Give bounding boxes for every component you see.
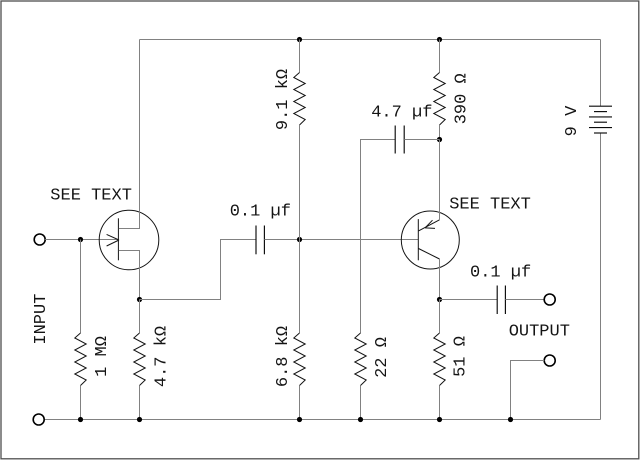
junction gate node <box>78 237 83 242</box>
wire source node to coupling cap <box>140 240 256 300</box>
resistor 1 MΩ <box>75 333 86 386</box>
wire 6.8k top lead <box>299 240 301 334</box>
svg-text:INPUT: INPUT <box>32 294 51 345</box>
svg-text:390 Ω: 390 Ω <box>453 73 472 124</box>
svg-text:6.8 kΩ: 6.8 kΩ <box>274 326 293 387</box>
wire bypass cap right <box>404 139 439 141</box>
svg-text:4.7 kΩ: 4.7 kΩ <box>153 326 172 387</box>
resistor 9.1 kΩ <box>294 73 305 126</box>
svg-text:0.1 µf: 0.1 µf <box>230 203 291 222</box>
wire 9.1k bottom lead <box>299 125 301 240</box>
svg-text:1 MΩ: 1 MΩ <box>93 336 112 377</box>
wire bottom ground rail <box>45 419 601 421</box>
resistor 22 Ω <box>355 333 366 386</box>
junction ground 51 <box>437 417 442 422</box>
junction collector node <box>437 297 442 302</box>
junction ground 6.8k <box>297 417 302 422</box>
terminal output top <box>544 294 555 305</box>
wire 4.7k bottom lead <box>139 386 141 420</box>
resistor 51 Ω <box>434 333 445 386</box>
junction top rail 390 <box>437 37 442 42</box>
capacitor 4.7 µf (bypass) <box>395 126 404 154</box>
wire cap to base <box>264 239 418 241</box>
svg-text:9.1 kΩ: 9.1 kΩ <box>274 69 293 130</box>
svg-text:SEE TEXT: SEE TEXT <box>50 187 132 206</box>
wire 1M top lead <box>80 240 82 334</box>
wire output cap to terminal <box>505 299 544 301</box>
wire 9.1k top lead <box>299 40 301 73</box>
svg-text:9 V: 9 V <box>563 105 582 136</box>
wire 51 top lead <box>439 300 441 334</box>
wire battery bottom lead <box>600 133 602 420</box>
terminal output bottom <box>544 355 555 366</box>
wire 390 bottom lead <box>439 125 441 140</box>
junction ground 1M <box>78 417 83 422</box>
svg-text:51 Ω: 51 Ω <box>452 336 471 377</box>
resistor 6.8 kΩ <box>294 333 305 386</box>
svg-text:4.7 µf: 4.7 µf <box>371 104 432 123</box>
transistor Q2 PNP <box>401 211 459 269</box>
capacitor 0.1 µf (input coupling) <box>256 226 264 255</box>
wire input to gate node <box>45 239 118 241</box>
wire 51 bottom lead <box>439 386 441 420</box>
wire collector to output cap <box>440 299 498 301</box>
terminal input bottom <box>33 414 44 425</box>
JFET Q1 <box>99 210 159 270</box>
wire 22 bottom lead <box>360 386 362 420</box>
wire battery top lead <box>600 40 602 107</box>
junction ground 22 <box>358 417 363 422</box>
svg-text:0.1 µf: 0.1 µf <box>470 263 531 282</box>
wire output bottom return <box>511 361 545 420</box>
wire top supply rail <box>140 39 601 41</box>
junction emitter node <box>437 137 442 142</box>
wire Q2 emitter lead <box>439 140 441 220</box>
capacitor 0.1 µf (output coupling) <box>497 286 505 315</box>
wire Q1 source lead <box>119 251 140 300</box>
wire bypass cap left <box>361 140 396 334</box>
battery B1 9V <box>589 106 612 133</box>
svg-text:22 Ω: 22 Ω <box>373 337 392 378</box>
junction divider node <box>297 237 302 242</box>
wire Q2 collector lead <box>439 259 441 300</box>
wire 4.7k top lead <box>139 300 141 334</box>
terminal input top <box>34 234 45 245</box>
wire 6.8k bottom lead <box>299 386 301 420</box>
junction top rail 9.1k <box>297 37 302 42</box>
svg-text:OUTPUT: OUTPUT <box>509 322 570 341</box>
resistor 390 Ω <box>434 73 445 126</box>
junction source node <box>137 297 142 302</box>
wire 390 top lead <box>439 40 441 73</box>
wire Q1 drain lead <box>119 40 140 229</box>
junction output return ground <box>508 417 513 422</box>
wire 1M bottom lead <box>80 386 82 420</box>
svg-text:SEE TEXT: SEE TEXT <box>449 196 531 215</box>
junction ground 4.7k <box>137 417 142 422</box>
resistor 4.7 kΩ <box>134 333 145 386</box>
